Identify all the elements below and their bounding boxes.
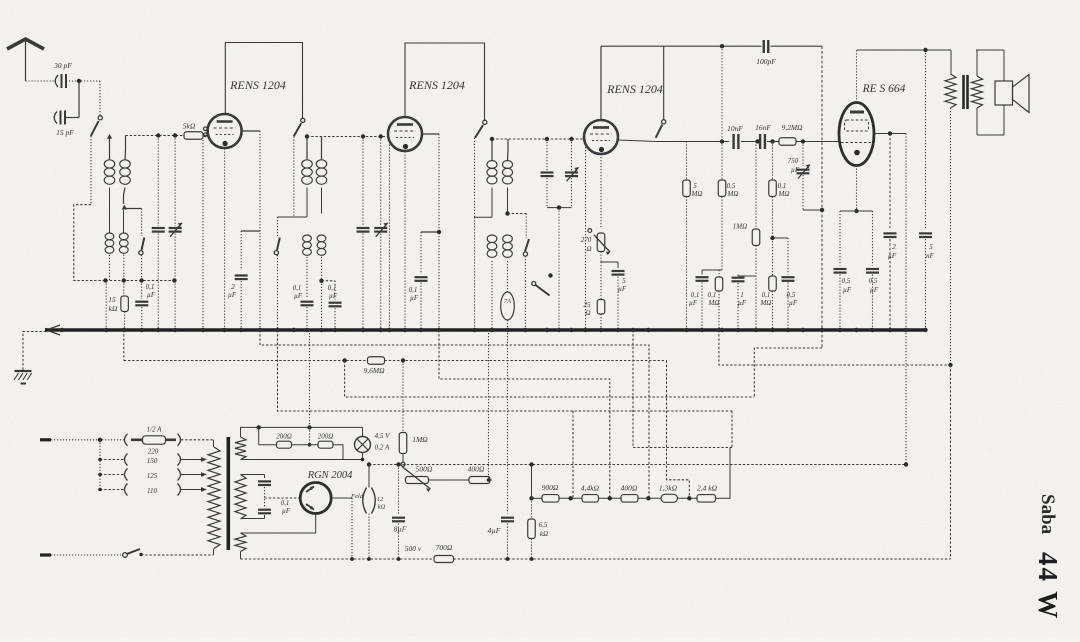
svg-text:0,1: 0,1: [328, 284, 337, 292]
svg-text:kΩ: kΩ: [109, 304, 118, 313]
svg-text:RE S 664: RE S 664: [862, 83, 906, 95]
svg-text:1,3kΩ: 1,3kΩ: [659, 484, 678, 493]
svg-text:150: 150: [147, 457, 158, 465]
svg-text:µF: µF: [147, 291, 156, 299]
svg-text:200Ω: 200Ω: [276, 433, 292, 441]
svg-text:µF: µF: [791, 166, 800, 174]
svg-text:4,4kΩ: 4,4kΩ: [581, 484, 600, 493]
svg-text:kΩ: kΩ: [378, 504, 386, 511]
svg-text:110: 110: [147, 487, 157, 495]
svg-text:700Ω: 700Ω: [436, 543, 453, 552]
svg-text:1MΩ: 1MΩ: [733, 223, 747, 231]
svg-text:900Ω: 900Ω: [542, 483, 559, 492]
svg-text:0,1: 0,1: [293, 284, 302, 292]
svg-text:400Ω: 400Ω: [621, 484, 638, 493]
svg-text:0,1: 0,1: [691, 291, 700, 299]
svg-text:220: 220: [148, 448, 159, 456]
svg-text:0,5: 0,5: [787, 291, 796, 299]
svg-text:µF: µF: [329, 292, 338, 300]
svg-text:9,2MΩ: 9,2MΩ: [781, 123, 803, 132]
svg-text:7A: 7A: [504, 298, 511, 305]
svg-text:200Ω: 200Ω: [318, 433, 334, 441]
svg-text:MΩ: MΩ: [727, 190, 739, 198]
svg-text:µF: µF: [282, 507, 291, 515]
svg-text:0,1: 0,1: [409, 286, 418, 294]
svg-text:MΩ: MΩ: [708, 299, 720, 307]
svg-text:2: 2: [892, 243, 896, 251]
svg-text:0,1: 0,1: [281, 499, 290, 507]
svg-text:2,4 kΩ: 2,4 kΩ: [697, 484, 718, 493]
svg-text:RENS 1204: RENS 1204: [408, 78, 465, 92]
svg-text:0,1: 0,1: [708, 291, 717, 299]
svg-text:kΩ: kΩ: [540, 530, 548, 538]
svg-text:1MΩ: 1MΩ: [412, 435, 428, 444]
svg-text:0,1: 0,1: [762, 291, 771, 299]
svg-text:µF: µF: [870, 286, 879, 294]
svg-text:µF: µF: [789, 299, 798, 307]
svg-text:4,5 V: 4,5 V: [375, 432, 391, 440]
svg-text:30 pF: 30 pF: [53, 61, 72, 70]
svg-text:µF: µF: [228, 291, 237, 299]
svg-text:9,6MΩ: 9,6MΩ: [363, 366, 385, 375]
svg-text:Feld: Feld: [350, 493, 364, 500]
svg-text:5kΩ: 5kΩ: [183, 122, 196, 131]
svg-text:nF: nF: [926, 252, 935, 260]
svg-text:µF: µF: [410, 294, 419, 302]
svg-text:400Ω: 400Ω: [468, 465, 485, 474]
svg-text:µF: µF: [738, 299, 747, 307]
svg-text:Saba: Saba: [1037, 494, 1058, 535]
svg-text:10nF: 10nF: [727, 124, 743, 133]
svg-text:µF: µF: [689, 299, 698, 307]
svg-text:16nF: 16nF: [755, 123, 771, 132]
svg-text:100pF: 100pF: [756, 57, 776, 66]
svg-text:8µF: 8µF: [394, 525, 407, 534]
svg-text:RENS 1204: RENS 1204: [229, 78, 286, 92]
svg-text:4µF: 4µF: [488, 526, 501, 535]
svg-text:0,5: 0,5: [842, 277, 851, 285]
svg-text:6,5: 6,5: [539, 521, 548, 529]
svg-text:12: 12: [377, 496, 384, 503]
svg-text:125: 125: [147, 472, 158, 480]
svg-text:MΩ: MΩ: [691, 190, 703, 198]
svg-text:0,5: 0,5: [869, 277, 878, 285]
svg-text:5: 5: [693, 182, 697, 190]
svg-text:1: 1: [740, 291, 744, 299]
svg-text:25: 25: [584, 301, 592, 309]
svg-text:µF: µF: [618, 285, 627, 293]
svg-text:MΩ: MΩ: [760, 299, 772, 307]
svg-text:0,5: 0,5: [727, 182, 736, 190]
svg-text:750: 750: [788, 157, 799, 165]
svg-text:15 pF: 15 pF: [56, 128, 74, 137]
svg-text:µF: µF: [843, 286, 852, 294]
svg-text:RGN 2004: RGN 2004: [307, 470, 353, 481]
svg-text:44 W: 44 W: [1033, 552, 1063, 620]
svg-text:270: 270: [581, 236, 592, 244]
svg-text:500 v: 500 v: [405, 544, 422, 553]
svg-text:0,1: 0,1: [146, 283, 155, 291]
svg-text:RENS 1204: RENS 1204: [606, 82, 663, 96]
svg-text:5: 5: [622, 277, 626, 285]
svg-text:0,1: 0,1: [778, 182, 787, 190]
svg-text:15: 15: [108, 295, 116, 304]
svg-text:Ω: Ω: [586, 245, 591, 253]
svg-text:500Ω: 500Ω: [416, 465, 433, 474]
svg-text:µF: µF: [888, 252, 897, 260]
svg-text:5: 5: [929, 243, 933, 251]
svg-text:µF: µF: [294, 292, 303, 300]
svg-text:2: 2: [231, 283, 235, 291]
svg-text:1/2 A: 1/2 A: [147, 426, 163, 434]
svg-text:0,2 A: 0,2 A: [375, 444, 390, 452]
svg-text:MΩ: MΩ: [778, 190, 790, 198]
svg-text:Ω: Ω: [585, 309, 590, 317]
